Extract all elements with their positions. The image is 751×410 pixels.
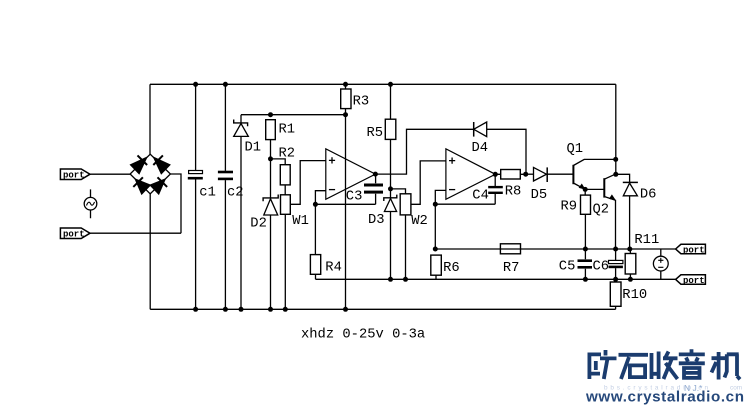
svg-text:R7: R7 [503,261,520,276]
svg-text:Q2: Q2 [593,203,610,218]
svg-text:D2: D2 [250,217,267,232]
svg-text:port: port [683,276,705,286]
svg-text:c2: c2 [227,185,244,200]
svg-text:R9: R9 [561,199,578,214]
svg-text:R4: R4 [325,261,342,276]
svg-text:C4: C4 [472,188,489,203]
svg-text:port: port [63,171,85,181]
svg-text:R3: R3 [353,95,370,110]
svg-text:R11: R11 [634,233,659,248]
svg-text:C6: C6 [593,260,610,275]
svg-text:R10: R10 [622,288,647,303]
svg-text:D4: D4 [472,141,489,156]
svg-text:C3: C3 [346,190,363,205]
svg-text:D6: D6 [640,187,657,202]
svg-text:Q1: Q1 [567,142,584,157]
svg-text:R2: R2 [279,146,296,161]
svg-text:c1: c1 [199,185,216,200]
svg-text:R8: R8 [505,185,522,200]
svg-text:W1: W1 [292,214,309,229]
svg-text:port: port [683,246,705,256]
svg-text:D5: D5 [531,188,548,203]
svg-text:C5: C5 [559,260,576,275]
svg-text:R1: R1 [279,123,296,138]
svg-text:D3: D3 [368,213,385,228]
svg-text:D1: D1 [245,141,262,156]
svg-text:W2: W2 [411,214,428,229]
svg-text:xhdz 0-25v 0-3a: xhdz 0-25v 0-3a [301,326,425,342]
svg-text:port: port [63,230,85,240]
svg-text:www.crystalradio.cn: www.crystalradio.cn [585,389,744,406]
svg-text:R5: R5 [367,126,384,141]
svg-text:R6: R6 [443,261,460,276]
